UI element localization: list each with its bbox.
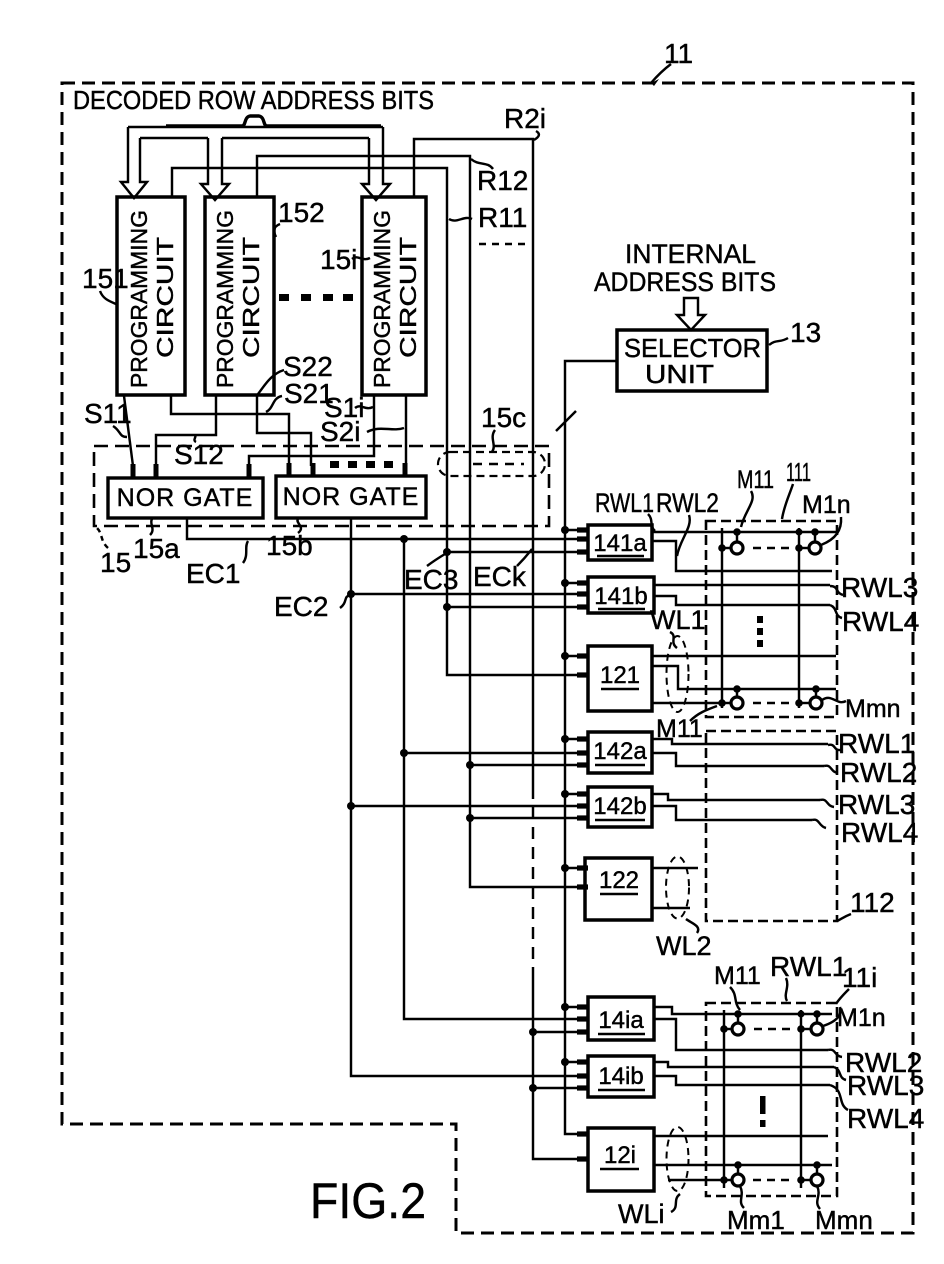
- label RWL4 bank1: [830, 605, 919, 637]
- arrow into selector unit: [677, 298, 705, 330]
- wire 121 source line: [652, 702, 719, 704]
- taps ECk to 142a 142b: [470, 765, 578, 818]
- label 15i: [320, 244, 370, 275]
- bus arrow 3: [362, 127, 390, 200]
- svg-text:15i: 15i: [320, 244, 357, 275]
- svg-text:121: 121: [600, 662, 640, 689]
- programming circuit 15i: [362, 197, 426, 395]
- label M1n bank1: [802, 491, 851, 519]
- junction dots EC2: [347, 590, 355, 810]
- vertical dots bank1: [757, 616, 763, 647]
- svg-text:M11: M11: [737, 466, 774, 494]
- label M11 bank i: [714, 962, 761, 1010]
- svg-text:ADDRESS BITS: ADDRESS BITS: [594, 267, 776, 297]
- label S22: [258, 351, 333, 394]
- label WLi: [618, 1194, 680, 1229]
- svg-text:15a: 15a: [133, 533, 180, 564]
- dots between 152 and 15i: [279, 294, 353, 301]
- label 151: [82, 263, 129, 304]
- label 15b: [266, 519, 313, 561]
- dashed ellipse WL1: [667, 636, 689, 712]
- NOR gate 15a input pins: [131, 464, 252, 479]
- bus arrow 1: [121, 127, 147, 198]
- vertical continuation mark bank i: [760, 1096, 766, 1127]
- svg-text:M1n: M1n: [802, 491, 851, 519]
- wire RWL1 bank i: [654, 1007, 832, 1014]
- NOR gate 15b: [276, 476, 426, 518]
- label EC1: [186, 541, 248, 589]
- svg-text:RWL1: RWL1: [770, 951, 847, 982]
- svg-text:EC2: EC2: [274, 591, 328, 622]
- label Mmn bank i: [815, 1205, 873, 1235]
- svg-text:PROGRAMMING: PROGRAMMING: [212, 210, 238, 388]
- wire R2i from programming circuit 15i top: [414, 139, 578, 1159]
- driver input pin nubs: [577, 527, 588, 1161]
- programming circuit 151: [117, 197, 185, 395]
- label 111: [782, 457, 811, 519]
- wire RWL2 bank i: [654, 1019, 828, 1050]
- label ECk: [473, 549, 532, 592]
- svg-text:NOR GATE: NOR GATE: [117, 484, 254, 512]
- svg-text:152: 152: [278, 197, 325, 228]
- svg-text:142a: 142a: [593, 738, 647, 765]
- dashes inside 15c: [473, 463, 524, 465]
- label 15a: [133, 519, 180, 564]
- bus arrow 2: [201, 138, 229, 200]
- wire S21: [171, 396, 289, 466]
- dashed ellipse WLi: [667, 1127, 689, 1191]
- dots omitted NOR gates: [330, 461, 393, 468]
- bit line n bank i: [800, 1010, 802, 1188]
- dashes between row m cells bank i: [753, 1179, 791, 1181]
- wire RWL2 bank2: [652, 753, 824, 766]
- svg-text:S12: S12: [174, 439, 224, 470]
- label S2i: [320, 416, 404, 447]
- svg-text:R11: R11: [478, 202, 527, 233]
- label S12: [174, 435, 224, 470]
- memory cell M11: [718, 528, 743, 554]
- dashed memory array box 112: [706, 731, 837, 921]
- memory cell M11 bank i: [720, 1010, 744, 1035]
- wire EC1 branch to 14ia and 142a: [404, 539, 578, 1019]
- label EC3: [404, 554, 458, 595]
- svg-text:151: 151: [82, 263, 129, 294]
- svg-text:DECODED ROW ADDRESS BITS: DECODED ROW ADDRESS BITS: [73, 85, 434, 115]
- svg-text:UNIT: UNIT: [645, 359, 714, 389]
- wire RWL2 bank1: [652, 541, 832, 571]
- wire S11: [124, 396, 133, 466]
- svg-text:R12: R12: [477, 165, 528, 196]
- label RWL1 bank2: [828, 728, 915, 759]
- wire RWL4 bank1: [654, 596, 830, 605]
- wire wordline A bank1: [652, 655, 836, 657]
- dashes continuation under R11: [479, 243, 526, 245]
- wire word line WL1 row m bank1: [652, 666, 836, 689]
- taps EC3 to 141a 141b: [447, 552, 578, 607]
- svg-text:CIRCUIT: CIRCUIT: [395, 237, 421, 358]
- label R11: [449, 202, 527, 233]
- svg-text:WL2: WL2: [656, 931, 712, 961]
- dashed box 15: [94, 446, 549, 526]
- label S1i: [324, 392, 373, 423]
- wire EC1: [187, 518, 578, 539]
- svg-text:15c: 15c: [481, 402, 526, 433]
- memory cell Mmn bank1: [795, 685, 846, 709]
- selector wire stubs to drivers: [565, 530, 578, 1062]
- label Mmn bank1: [845, 695, 901, 723]
- wire S22: [257, 396, 311, 466]
- label RWL3 bank2: [820, 789, 915, 820]
- svg-text:S11: S11: [84, 398, 132, 429]
- svg-text:WLi: WLi: [618, 1199, 665, 1229]
- driver box 14ib: [588, 1056, 654, 1097]
- junction dots R2i: [529, 1028, 537, 1092]
- label RWL1 bank i: [770, 951, 847, 1001]
- svg-text:141a: 141a: [593, 530, 647, 557]
- label S11: [84, 398, 132, 437]
- selector wire junction dots: [561, 526, 569, 1066]
- svg-text:15: 15: [100, 547, 131, 578]
- svg-text:14ib: 14ib: [598, 1063, 643, 1090]
- label 13: [769, 317, 821, 348]
- svg-text:15b: 15b: [266, 530, 313, 561]
- label 11: [651, 38, 693, 86]
- label RWL3 bank i: [834, 1067, 924, 1101]
- svg-text:11i: 11i: [842, 962, 877, 993]
- wire EC2: [351, 518, 578, 1076]
- svg-text:RWL2: RWL2: [840, 757, 917, 788]
- selector unit 13: [617, 330, 767, 391]
- svg-text:11: 11: [664, 38, 693, 69]
- svg-text:Mmn: Mmn: [845, 695, 901, 723]
- NOR gate 15b input pins: [287, 463, 408, 477]
- bit line 1 bank1: [721, 528, 723, 708]
- wire RWL4 bank2: [652, 806, 812, 820]
- label 152: [274, 197, 325, 237]
- dashes between row1 cells bank1: [753, 547, 791, 549]
- svg-text:141b: 141b: [594, 583, 647, 610]
- decoder box 12i: [588, 1128, 654, 1191]
- dashed memory array box 111: [706, 521, 837, 717]
- svg-text:FIG.2: FIG.2: [310, 1173, 426, 1229]
- label RWL3 bank1: [830, 572, 918, 603]
- svg-text:RWL1: RWL1: [595, 488, 654, 518]
- label R2i: [504, 103, 546, 140]
- label WL1: [650, 605, 706, 648]
- svg-text:RWL3: RWL3: [838, 789, 915, 820]
- decoder box 121: [588, 646, 652, 711]
- wire 122 output stubs: [652, 868, 698, 908]
- svg-text:RWL4: RWL4: [841, 817, 918, 848]
- wire S1i: [249, 396, 374, 466]
- caption FIG.2: [310, 1173, 426, 1229]
- dashes between row1 cells bank i: [754, 1028, 792, 1030]
- svg-text:Mm1: Mm1: [727, 1205, 785, 1235]
- bit line 1 bank i: [723, 1010, 725, 1188]
- label RWL2 bank1: [656, 488, 719, 556]
- label R12: [471, 159, 528, 196]
- svg-text:111: 111: [786, 457, 811, 487]
- label 15: [97, 528, 131, 578]
- wire word line WLi row m bank i: [654, 1164, 832, 1166]
- svg-text:14ia: 14ia: [598, 1007, 644, 1034]
- svg-text:S2i: S2i: [320, 416, 360, 447]
- driver box 141a: [588, 525, 652, 560]
- wire wordline A bank i: [654, 1135, 828, 1137]
- svg-text:PROGRAMMING: PROGRAMMING: [126, 210, 152, 388]
- svg-text:RWL2: RWL2: [656, 488, 719, 518]
- wire RWL4 bank i: [654, 1076, 830, 1085]
- memory cell Mm1 bank1: [718, 685, 743, 709]
- wire R12 from programming circuit 152 top: [257, 156, 578, 887]
- label 11i: [836, 962, 877, 1004]
- label RWL4 bank i: [830, 1085, 924, 1134]
- wire RWL1 bank1: [652, 531, 836, 533]
- NOR gate 15a: [108, 478, 263, 518]
- svg-text:RWL4: RWL4: [842, 606, 919, 637]
- driver box 142a: [588, 732, 652, 773]
- driver box 141b: [588, 577, 654, 613]
- label M1n bank i: [837, 1004, 886, 1032]
- memory cell Mm1 bank i: [720, 1161, 744, 1208]
- svg-text:RWL1: RWL1: [838, 728, 915, 759]
- svg-text:M1n: M1n: [837, 1004, 886, 1032]
- memory cell M1n bank i: [797, 1007, 840, 1035]
- label 112: [837, 887, 895, 921]
- svg-text:112: 112: [850, 887, 895, 918]
- taps R2i to 14ia 14ib: [533, 1032, 578, 1088]
- driver box 142b: [588, 787, 652, 827]
- dashes between row m cells bank1: [753, 702, 791, 704]
- label RWL2 bank i: [828, 1047, 922, 1078]
- svg-text:RWL3: RWL3: [841, 572, 918, 603]
- svg-text:WL1: WL1: [650, 605, 706, 635]
- svg-text:RWL3: RWL3: [847, 1070, 924, 1101]
- memory cell M1n: [795, 517, 841, 554]
- svg-text:INTERNAL: INTERNAL: [625, 239, 756, 269]
- break slash on selector wire: [556, 411, 576, 431]
- bus line B: [140, 137, 369, 139]
- junction dots EC1: [400, 535, 408, 757]
- svg-text:122: 122: [599, 867, 639, 894]
- bus line A: [128, 126, 383, 128]
- svg-text:M11: M11: [714, 962, 761, 990]
- svg-text:NOR GATE: NOR GATE: [283, 483, 420, 511]
- wire RWL3 bank1: [654, 584, 830, 586]
- wire selector unit output: [565, 361, 617, 1134]
- dashed capsule 15c: [438, 452, 545, 476]
- label RWL2 bank2: [824, 757, 917, 788]
- driver box 14ia: [588, 997, 654, 1040]
- svg-text:Mmn: Mmn: [815, 1205, 873, 1235]
- wire RWL1 bank2: [652, 739, 828, 744]
- label M11 bank1: [737, 466, 774, 527]
- dashed ellipse WL2: [666, 857, 689, 919]
- junction dots ECk: [466, 761, 474, 822]
- svg-text:CIRCUIT: CIRCUIT: [238, 237, 264, 358]
- svg-text:CIRCUIT: CIRCUIT: [152, 237, 178, 358]
- svg-text:S22: S22: [283, 351, 333, 382]
- label RWL1 bank1: [595, 488, 655, 531]
- bus brace bump bar: [166, 116, 381, 126]
- label S21: [266, 378, 334, 412]
- svg-text:EC1: EC1: [186, 558, 240, 589]
- svg-text:13: 13: [790, 317, 821, 348]
- svg-text:PROGRAMMING: PROGRAMMING: [369, 210, 395, 388]
- wire S12: [156, 396, 216, 466]
- label 15c: [481, 402, 526, 452]
- svg-text:EC3: EC3: [404, 564, 458, 595]
- title DECODED ROW ADDRESS BITS: [73, 85, 434, 115]
- decoder box 122: [585, 858, 652, 920]
- wire R11 from programming circuit 151 top: [172, 168, 578, 675]
- label EC2: [274, 591, 350, 622]
- svg-text:12i: 12i: [604, 1142, 636, 1169]
- label M11 lower: [656, 706, 717, 743]
- svg-text:142b: 142b: [593, 793, 646, 820]
- wire RWL3 bank i: [654, 1062, 834, 1067]
- bit line n bank1: [798, 528, 800, 708]
- programming circuit 152: [205, 197, 274, 395]
- label RWL4 bank2: [812, 817, 918, 848]
- title INTERNAL ADDRESS BITS: [594, 239, 776, 297]
- label Mm1: [727, 1205, 785, 1235]
- dashed memory array box 11i: [706, 1003, 837, 1196]
- wire S2i: [405, 396, 407, 466]
- wire 12i source line: [668, 1179, 721, 1181]
- label WL2: [656, 919, 712, 961]
- wire RWL3 bank2: [652, 794, 820, 800]
- svg-text:RWL4: RWL4: [847, 1103, 924, 1134]
- svg-text:R2i: R2i: [504, 103, 546, 134]
- memory cell Mmn bank i: [797, 1161, 823, 1209]
- junction dots EC3: [443, 548, 451, 611]
